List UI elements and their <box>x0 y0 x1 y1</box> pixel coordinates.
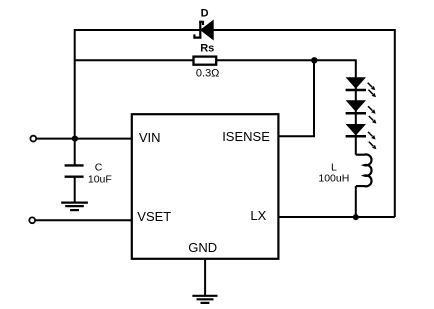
svg-text:10uF: 10uF <box>88 174 112 186</box>
svg-text:0.3Ω: 0.3Ω <box>196 67 220 79</box>
svg-text:ISENSE: ISENSE <box>222 129 270 144</box>
svg-text:D: D <box>201 7 209 19</box>
svg-text:GND: GND <box>188 240 217 255</box>
svg-text:C: C <box>95 162 103 174</box>
svg-text:100uH: 100uH <box>318 172 349 184</box>
svg-text:VSET: VSET <box>137 209 171 224</box>
svg-text:Rs: Rs <box>200 42 214 54</box>
svg-text:LX: LX <box>250 208 266 223</box>
svg-text:VIN: VIN <box>139 130 161 145</box>
